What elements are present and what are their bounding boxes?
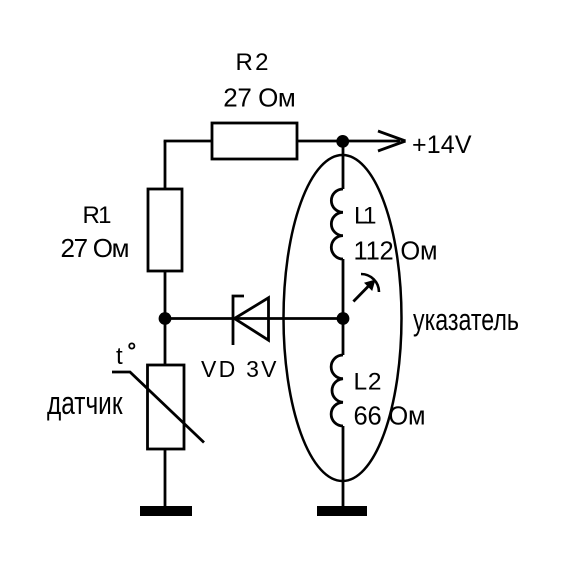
svg-text:датчик: датчик [47, 385, 123, 421]
label +14V [412, 131, 472, 159]
inductor L2 [331, 355, 343, 426]
svg-text:+14V: +14V [412, 131, 472, 159]
svg-text:27 Ом: 27 Ом [61, 233, 130, 263]
wire node B down to L2 [342, 319, 345, 356]
wire L1 to node B [342, 259, 345, 319]
label R2 [236, 49, 269, 76]
label VD 3V [201, 356, 277, 382]
inductor L1 [331, 189, 343, 259]
wire from R2 left to left branch [164, 140, 212, 143]
wire R1 bottom to node A [164, 271, 167, 319]
wire horizontal through diode [165, 317, 343, 320]
label L2 [354, 369, 382, 396]
svg-text:27 Ом: 27 Ом [223, 83, 295, 113]
svg-text:L1: L1 [354, 203, 377, 230]
svg-text:R1: R1 [83, 202, 112, 229]
node B junction dot right [337, 312, 350, 325]
gauge ellipse указатель [284, 155, 402, 481]
svg-text:указатель: указатель [413, 302, 519, 337]
svg-text:VD 3V: VD 3V [201, 356, 277, 382]
node A junction dot left [159, 312, 172, 325]
arrowhead +14V [378, 131, 406, 151]
wire node A down to thermistor [164, 319, 167, 366]
svg-text:L2: L2 [354, 369, 382, 396]
label L1 value 112 Ом [354, 238, 438, 266]
label degree mark [129, 343, 134, 348]
label L1 [354, 203, 377, 230]
resistor R1 [148, 189, 182, 271]
wire from R2 right to +14V arrow [297, 140, 400, 143]
label R2 value 27 Ом [223, 83, 295, 113]
resistor R2 [212, 123, 297, 159]
label L2 value 66 Ом [354, 403, 426, 431]
node top junction [336, 135, 349, 148]
diode VD zener cathode bar [233, 296, 244, 345]
wire thermistor to ground [164, 449, 167, 506]
label t [116, 343, 123, 370]
ground left [140, 506, 192, 516]
wire top node down to L1 [342, 141, 345, 189]
thermistor body [148, 365, 185, 449]
diode VD triangle [235, 298, 269, 340]
wire left vertical down to R1 [164, 141, 167, 189]
meter needle arrow [353, 274, 379, 302]
label датчик [47, 385, 123, 421]
label указатель [413, 302, 519, 337]
label R1 value 27 Ом [61, 233, 130, 263]
svg-text:R2: R2 [236, 49, 269, 76]
ground right [317, 506, 367, 516]
wire L2 to ground [342, 426, 345, 506]
svg-text:t: t [116, 343, 123, 370]
label R1 [83, 202, 112, 229]
thermistor diagonal stroke with tick [112, 372, 204, 443]
